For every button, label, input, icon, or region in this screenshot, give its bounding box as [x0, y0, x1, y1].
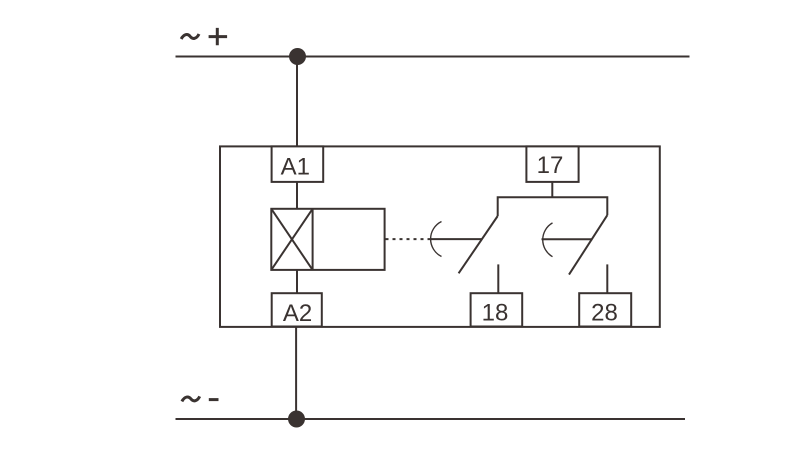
wire bottom supply bus — [176, 418, 686, 420]
svg-text:A1: A1 — [281, 154, 310, 181]
junction dot bottom — [288, 411, 305, 428]
label ~ + — [181, 28, 227, 45]
svg-text:17: 17 — [537, 152, 564, 179]
terminal A1 — [272, 146, 324, 182]
junction dot top — [289, 48, 306, 65]
terminal A2 — [272, 293, 322, 327]
wire A1 to coil — [296, 182, 298, 209]
contact bar — [498, 197, 608, 216]
svg-text:28: 28 — [591, 299, 618, 326]
dotted mechanical link — [386, 238, 429, 240]
terminal 18 — [471, 293, 523, 326]
wire 17 to contact bar — [551, 182, 553, 198]
contact 17-28 — [542, 215, 608, 293]
wire top supply bus — [176, 56, 690, 58]
label ~ - — [182, 396, 219, 401]
relay outline box — [220, 146, 660, 327]
svg-text:18: 18 — [482, 299, 509, 326]
coil K1 — [271, 209, 384, 270]
terminal 17 — [526, 146, 578, 182]
wire A2 to bottom bus — [295, 327, 297, 420]
wire coil to A2 — [296, 270, 298, 293]
terminal 28 — [579, 293, 631, 326]
wire from top bus to A1 — [296, 57, 298, 147]
contact 17-18 — [429, 216, 499, 293]
svg-text:A2: A2 — [283, 300, 312, 327]
